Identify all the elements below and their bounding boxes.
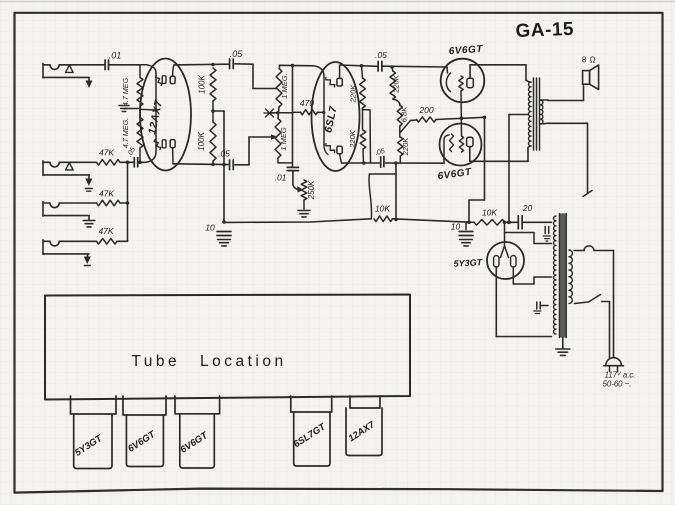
svg-text:6.8K: 6.8K (400, 106, 409, 122)
svg-text:50-60 ~.: 50-60 ~. (603, 380, 632, 389)
svg-text:1 MEG.: 1 MEG. (280, 73, 289, 98)
svg-text:6SL7GT: 6SL7GT (292, 421, 329, 450)
svg-text:12AX7: 12AX7 (346, 419, 377, 444)
svg-text:4.7 MEG: 4.7 MEG (121, 77, 130, 106)
svg-text:.01: .01 (275, 173, 287, 183)
svg-text:47K: 47K (99, 148, 114, 158)
svg-text:100K: 100K (198, 74, 207, 93)
svg-text:220K: 220K (391, 74, 400, 94)
svg-text:20: 20 (522, 203, 533, 213)
svg-text:Tube Location: Tube Location (131, 353, 286, 370)
svg-text:6SL7: 6SL7 (322, 104, 340, 134)
svg-text:5Y3GT: 5Y3GT (453, 257, 483, 269)
svg-text:10K: 10K (482, 208, 497, 218)
svg-text:117V a.c.: 117V a.c. (605, 371, 636, 380)
svg-text:100K: 100K (197, 131, 206, 150)
svg-text:8 Ω: 8 Ω (582, 56, 596, 65)
svg-text:1 MEG: 1 MEG (279, 127, 288, 151)
svg-text:10: 10 (451, 222, 461, 232)
svg-text:220K: 220K (401, 137, 410, 157)
svg-text:10K: 10K (375, 204, 390, 214)
svg-text:250K: 250K (307, 180, 316, 200)
svg-text:.05: .05 (230, 49, 244, 59)
svg-text:47K: 47K (98, 226, 113, 236)
svg-text:47K: 47K (99, 189, 114, 199)
svg-text:6V6GT: 6V6GT (437, 167, 473, 183)
svg-text:220K: 220K (348, 129, 357, 149)
svg-text:.01: .01 (109, 51, 122, 61)
svg-text:.05: .05 (218, 149, 230, 159)
svg-text:200: 200 (418, 105, 433, 115)
svg-text:4.7 MEG.: 4.7 MEG. (121, 118, 130, 148)
svg-text:6V6GT: 6V6GT (179, 429, 211, 455)
svg-text:220K: 220K (349, 84, 358, 104)
svg-text:6V6GT: 6V6GT (126, 428, 158, 454)
svg-text:.05: .05 (375, 50, 387, 60)
svg-text:10: 10 (205, 223, 215, 233)
svg-text:6V6GT: 6V6GT (448, 44, 483, 57)
svg-text:5Y3GT: 5Y3GT (73, 432, 105, 458)
svg-text:GA-15: GA-15 (515, 19, 574, 42)
